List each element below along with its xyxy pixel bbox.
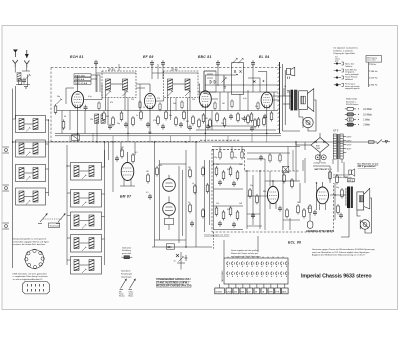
svg-text:30p: 30p: [57, 96, 60, 98]
tube label EF89: [143, 55, 154, 59]
svg-text:95 Hz: 95 Hz: [371, 64, 377, 66]
Fi1 primary coil: [106, 79, 112, 96]
netzteil label: [315, 169, 330, 171]
left margin terminal 2: [3, 185, 10, 191]
note diese angaben: [231, 249, 260, 258]
antenna arrow: [25, 50, 29, 58]
note tonabnehmer bold: [156, 278, 192, 287]
svg-text:240V~: 240V~: [347, 137, 353, 139]
svg-text:Geänderte: Geänderte: [121, 270, 131, 273]
decoder RC row1: [214, 164, 244, 189]
wire EM87 drop: [113, 142, 135, 192]
svg-text:220: 220: [131, 99, 134, 101]
svg-text:eingetragen: eingetragen: [121, 275, 132, 278]
svg-text:25µ: 25µ: [250, 185, 253, 187]
legend row 2: [334, 68, 378, 75]
crystal box: [283, 166, 289, 172]
EL84 cathode cluster: [247, 114, 266, 132]
switch table ticks: [228, 257, 283, 259]
terminal box mid: [167, 244, 175, 249]
svg-text:ECL 86: ECL 86: [288, 241, 301, 245]
ps wires extra: [305, 158, 348, 183]
svg-text:Mono: Mono: [129, 296, 134, 298]
padder trimmer: [57, 99, 63, 104]
antenna coupling parts: [16, 79, 30, 88]
svg-text:3n9: 3n9: [227, 169, 230, 171]
resistor legend row1: [345, 107, 372, 111]
IF strip small resistors: [98, 99, 259, 111]
resistor legend row4: [345, 123, 370, 127]
switch table contacts row2: [227, 272, 288, 277]
demod triode EBC81: [199, 91, 211, 108]
tweeter coupling marks: [284, 86, 290, 96]
svg-text:100: 100: [192, 99, 195, 101]
IF transformer can Fi2 dashed box: [164, 68, 199, 97]
antenna AM: [13, 50, 18, 58]
svg-text:nachgestimmte Gerät übertragen: nachgestimmte Gerät übertragen: [231, 255, 260, 258]
svg-text:60: 60: [64, 116, 66, 118]
svg-text:nach unten: nach unten: [367, 59, 376, 62]
output transformer T2: [345, 187, 353, 209]
ratio det diode marks: [210, 80, 216, 84]
ECL86 label: [288, 241, 301, 245]
note text UKW: [13, 272, 49, 281]
Fi1 secondary coil: [111, 79, 128, 96]
svg-text:HF 2: HF 2: [348, 180, 354, 182]
electrolytic pair: [314, 155, 327, 165]
phono jack BU1: [303, 117, 313, 127]
wire filter stack left rail: [13, 119, 49, 196]
svg-text:LW: LW: [248, 291, 251, 293]
value labels scatter row2: [106, 115, 265, 125]
svg-text:470k: 470k: [158, 165, 162, 167]
svg-text:5k: 5k: [270, 94, 272, 96]
svg-text:SPR: SPR: [268, 291, 273, 293]
tuning gang capacitor: [232, 58, 244, 95]
stereo pentode ECL86b: [317, 182, 329, 210]
loudspeaker LS1: [299, 89, 314, 112]
svg-text:50µ: 50µ: [117, 123, 120, 125]
svg-text:1k: 1k: [143, 107, 145, 109]
svg-text:315 Hz: 315 Hz: [371, 77, 378, 79]
wire ps to bus: [296, 142, 338, 166]
ratio detector components: [202, 111, 273, 129]
mains transformer NT: [333, 134, 343, 159]
svg-text:abfallend: abfallend: [345, 79, 353, 81]
svg-text:macht gedämpft: macht gedämpft: [345, 73, 359, 76]
loudspeaker LS2: [357, 188, 370, 210]
oscillator label boxes: [74, 74, 100, 92]
svg-text:0,5: 0,5: [135, 152, 138, 154]
middle resistors: [147, 166, 197, 227]
hanging parts upper decoder: [219, 147, 243, 160]
phono jack BU2: [360, 220, 370, 230]
svg-text:0,1: 0,1: [146, 192, 149, 194]
svg-text:350-W-Serien: 350-W-Serien: [346, 104, 358, 106]
note gedruckte: [122, 246, 132, 255]
svg-text:3k3: 3k3: [186, 121, 189, 123]
switch table contacts row1: [227, 262, 288, 267]
svg-text:Netzspannungsteile nur unter g: Netzspannungsteile nur unter gezeich.: [13, 238, 48, 241]
svg-text:MW: MW: [241, 291, 245, 293]
output transformer T1: [290, 90, 298, 111]
oscillator resistor R4: [62, 120, 65, 131]
svg-text:1k8: 1k8: [239, 203, 242, 205]
svg-text:-neten/oben angegeb. Werten un: -neten/oben angegeb. Werten und Typen: [13, 240, 49, 243]
tube label ECH81: [70, 55, 84, 59]
left margin terminal 1: [3, 147, 10, 153]
svg-text:Gedruckte: Gedruckte: [122, 246, 132, 249]
tastenaggregat label: [204, 233, 230, 236]
svg-text:1 Watt: 1 Watt: [363, 119, 370, 122]
wire middle loop: [155, 142, 187, 247]
pickup switch Sa: [119, 278, 127, 297]
oscillator resistor R3: [54, 104, 57, 115]
anschluss note: [333, 174, 352, 180]
small speaker HT2: [349, 169, 355, 177]
band filter unit BF4: [16, 188, 46, 205]
label EC86 small: [214, 157, 237, 159]
svg-text:1/3 Watt: 1/3 Watt: [363, 114, 372, 117]
legend row 4: [334, 83, 378, 90]
decoder extra wires: [247, 147, 300, 231]
svg-text:-en wie im folgenden Abschnitt: -en wie im folgenden Abschnitt 19: [13, 278, 44, 281]
dashed chassis line mid: [51, 140, 240, 141]
wire verticals EBC81 EL84: [205, 90, 274, 134]
svg-text:0,5µ: 0,5µ: [243, 98, 247, 100]
volume pot P1: [222, 76, 228, 85]
svg-text:0,1: 0,1: [285, 171, 288, 173]
svg-text:Die abgeänd. Lautsprecher-: Die abgeänd. Lautsprecher-: [333, 47, 358, 50]
wire bus 30V: [55, 132, 281, 136]
resistor sample: [122, 256, 133, 259]
band filter unit BF9: [71, 257, 102, 275]
b+ feed horizontals: [212, 147, 300, 163]
svg-text:TONABNEHMER ANSCHLUSS /: TONABNEHMER ANSCHLUSS /: [156, 278, 191, 281]
svg-text:NT 5: NT 5: [333, 130, 339, 133]
svg-text:-ersetzen, die Geräte-Sich. be: -ersetzen, die Geräte-Sich. beachten: [13, 243, 46, 246]
value labels scatter top: [57, 94, 272, 121]
magic eye EM87 envelope: [121, 152, 134, 186]
decoder value labels: [216, 164, 339, 211]
EM87 label: [120, 195, 132, 199]
wire verticals ECH81: [62, 108, 97, 142]
svg-text:beziehen a.: beziehen a.: [346, 101, 357, 103]
svg-text:ZF 86: ZF 86: [170, 68, 178, 71]
left margin terminal 3: [3, 223, 10, 229]
svg-text:UKW: UKW: [227, 291, 232, 293]
left feed components: [202, 160, 210, 232]
decoder RC row2: [214, 206, 244, 230]
resistor legend row2: [345, 113, 372, 117]
output pentode EL84: [261, 92, 272, 109]
dashed box tuner top edge: [51, 67, 281, 69]
svg-text:50µ: 50µ: [234, 157, 237, 159]
band filter unit BF2: [16, 140, 46, 157]
resistor legend heading: [346, 98, 358, 107]
EL84 top cap wires: [205, 72, 266, 93]
wire column B rail: [67, 145, 105, 265]
netztrafo note bold: [357, 162, 379, 168]
legend heading box: [366, 56, 382, 63]
band filter unit BF1: [16, 116, 46, 133]
svg-text:Diese angaben mit den großen: Diese angaben mit den großen: [231, 249, 258, 252]
svg-text:Tieftöner: Tieftöner: [345, 65, 353, 68]
triode-heptode ECH81: [72, 91, 84, 108]
bridge rectifier GL1: [311, 133, 329, 155]
svg-text:Widerstände: Widerstände: [346, 98, 358, 101]
svg-text:GRUNDPLATTE FM/ST: GRUNDPLATTE FM/ST: [306, 230, 333, 233]
svg-text:WECHSLER-CHASSIS (Pos.124): WECHSLER-CHASSIS (Pos.124): [156, 284, 192, 287]
svg-text:Der Netztrafo ist auf: Der Netztrafo ist auf: [358, 162, 379, 165]
dipole fork A: [13, 60, 18, 67]
svg-text:1n: 1n: [136, 115, 138, 117]
legend sub text: [335, 56, 340, 63]
switch link dashed: [43, 219, 62, 228]
svg-text:KW: KW: [234, 291, 237, 293]
cathode box: [165, 218, 174, 230]
pickup pot: [177, 252, 185, 270]
svg-text:für Zweitlautsprecher: für Zweitlautsprecher: [333, 176, 352, 179]
svg-text:5n: 5n: [241, 118, 243, 120]
svg-text:Angaben über Meßwerte bei Voll: Angaben über Meßwerte bei Vollaussteueru…: [312, 254, 365, 257]
svg-text:Werten der Tasten auf das jew.: Werten der Tasten auf das jew.: [231, 252, 259, 255]
middle value labels: [121, 147, 194, 204]
wire vertical pair before transformer: [283, 64, 301, 131]
wire bus bottom mid: [152, 142, 212, 247]
svg-text:110V~: 110V~: [347, 149, 353, 151]
tube socket view: [25, 249, 45, 269]
wire grid row detector: [198, 80, 280, 92]
band filter unit BF3: [16, 165, 46, 182]
dashed box tuner left edge: [50, 68, 52, 142]
tweeter HT1: [286, 67, 295, 79]
ECC83a triode circle: [163, 175, 176, 192]
svg-text:680: 680: [263, 191, 266, 193]
svg-text:Tastensatz: Tastensatz: [50, 224, 60, 227]
wire ls2 to jack: [341, 198, 372, 237]
band filter unit BF6: [71, 190, 102, 208]
pickup switch Sb: [129, 278, 136, 297]
bus tick leads: [70, 134, 267, 143]
svg-text:ZF 85: ZF 85: [107, 68, 115, 71]
svg-text:125V~: 125V~: [347, 145, 353, 147]
NT label: [333, 130, 339, 133]
key button row: [215, 288, 288, 294]
svg-text:ECH 81: ECH 81: [70, 55, 84, 59]
heater run: [333, 159, 342, 164]
svg-text:7k: 7k: [330, 169, 332, 171]
svg-text:EM 87: EM 87: [120, 195, 132, 199]
svg-text:STE: STE: [275, 291, 280, 293]
svg-text:98,45 A-A: 98,45 A-A: [75, 78, 85, 81]
note gemessen: [312, 248, 375, 257]
svg-text:Gemessen gegen Chassis mit Röh: Gemessen gegen Chassis mit Röhrenvoltmet…: [312, 248, 375, 251]
connector strip view: [23, 282, 50, 294]
wire grid line g1: [55, 110, 278, 112]
svg-text:NETZTEIL NT 5: NETZTEIL NT 5: [315, 169, 330, 171]
svg-text:12A: 12A: [167, 246, 172, 249]
legend bracket: [369, 63, 371, 88]
wavechange switch S2: [56, 213, 66, 224]
bypass caps row1: [108, 122, 192, 131]
svg-text:EF 89: EF 89: [143, 55, 154, 59]
svg-text:3k: 3k: [188, 202, 190, 204]
wire EL84 to transformer: [273, 96, 291, 104]
tube label EBC81: [198, 55, 212, 59]
band filter unit BF7: [71, 212, 102, 230]
key row connectors: [220, 284, 285, 288]
amp resistor cluster: [278, 170, 343, 219]
wire amp section: [265, 142, 346, 230]
svg-text:0,1µ: 0,1µ: [88, 96, 92, 98]
svg-text:87,15-94A: 87,15-94A: [75, 74, 85, 77]
svg-text:Kombinat. in nebenstr.: Kombinat. in nebenstr.: [333, 49, 353, 52]
IF transformer can Fi1 dashed box: [102, 68, 136, 97]
EM87 anode resistor: [115, 148, 134, 164]
elco capsule: [307, 214, 313, 228]
negative feedback run: [196, 126, 276, 130]
svg-text:460 Hz: 460 Hz: [371, 85, 378, 87]
grundplatte label: [306, 230, 333, 233]
resistor legend row3: [345, 118, 370, 122]
wire EF89 connections: [108, 84, 188, 134]
svg-text:10,97-52 A-A: 10,97-52 A-A: [75, 82, 88, 85]
small caps top row: [94, 60, 255, 67]
svg-text:Tastenaggregat von unten: Tastenaggregat von unten: [204, 233, 230, 236]
svg-text:2x50µF 350V: 2x50µF 350V: [314, 163, 327, 165]
dashed link decoder to table: [214, 232, 259, 258]
chassis hatched bar: [278, 62, 280, 133]
Fi2 secondary coil: [173, 79, 191, 96]
svg-text:47k: 47k: [110, 102, 113, 104]
ECC83b triode circle: [163, 196, 176, 218]
mains wire and fuse: [352, 140, 390, 144]
wavechange switch S1: [38, 213, 48, 224]
band filter unit BF5: [71, 163, 102, 181]
EBC81 grid cluster: [198, 118, 210, 130]
svg-text:gestrichelt: gestrichelt: [122, 252, 132, 255]
title: [301, 273, 372, 279]
svg-text:5k6: 5k6: [173, 103, 176, 105]
svg-text:25µ: 25µ: [221, 123, 224, 125]
grid cap C8: [84, 105, 88, 111]
input trimmer C1: [22, 74, 31, 86]
switch table frame: [221, 258, 288, 284]
svg-text:Stereo: Stereo: [119, 295, 125, 298]
svg-text:50µ: 50µ: [336, 187, 339, 189]
svg-text:angepaßt geprüft: angepaßt geprüft: [345, 87, 360, 90]
wire antenna down-lead: [13, 86, 16, 268]
legend header text: [333, 47, 358, 56]
svg-text:10n: 10n: [169, 115, 172, 117]
IF strip top links: [96, 64, 216, 111]
svg-text:1µ: 1µ: [192, 183, 194, 185]
AFC box: [72, 135, 80, 141]
svg-text:12k: 12k: [216, 164, 219, 166]
svg-text:TASTENSATZ: TASTENSATZ: [221, 270, 224, 282]
transformer taps: [343, 137, 353, 153]
svg-text:27k: 27k: [157, 98, 160, 100]
Fi2 primary coil: [168, 79, 174, 96]
svg-text:1/2 Watt: 1/2 Watt: [363, 108, 372, 111]
svg-text:ST-ANT. IN STEREO-LAUFW. /: ST-ANT. IN STEREO-LAUFW. /: [156, 281, 189, 284]
wire speaker to jack: [299, 100, 316, 131]
diode marks bottom mid: [174, 254, 188, 263]
note gestrichelt: [121, 270, 132, 279]
svg-text:Prägung der Typschilder: Prägung der Typschilder: [333, 53, 355, 55]
svg-text:220 V geschaltet !: 220 V geschaltet !: [357, 165, 377, 168]
svg-text:AUS: AUS: [282, 290, 287, 293]
svg-text:grün: grün: [335, 61, 339, 63]
FM input coil: [15, 67, 30, 81]
svg-text:3n9: 3n9: [227, 209, 230, 211]
svg-text:u. eingebauten Teilen kompl. a: u. eingebauten Teilen kompl. austausch.: [13, 275, 49, 278]
EBC81 grid box: [204, 71, 216, 92]
IF pentode EF89: [144, 93, 155, 109]
wire main bus: [13, 141, 352, 143]
svg-text:470k: 470k: [153, 120, 157, 122]
wire IF strip verticals: [96, 64, 253, 111]
wire stage links: [84, 75, 280, 101]
svg-text:470: 470: [255, 106, 258, 108]
svg-text:EL 84: EL 84: [259, 55, 270, 59]
svg-text:NORM: NORM: [216, 291, 222, 293]
svg-text:2 Watt: 2 Watt: [363, 124, 370, 127]
svg-text:220V~: 220V~: [347, 141, 353, 143]
svg-text:UKW Zwischens. mit sämt. gedru: UKW Zwischens. mit sämt. gedruckten: [13, 272, 47, 275]
svg-text:1k8: 1k8: [239, 164, 242, 166]
svg-text:8k2: 8k2: [106, 116, 109, 118]
wire decoder verticals: [214, 149, 261, 230]
legend row 1: [334, 62, 376, 68]
svg-text:mit Anschlußschnur: mit Anschlußschnur: [333, 174, 351, 177]
tube label EL84: [259, 55, 270, 59]
osc coil pair L2: [95, 114, 106, 123]
svg-text:12k: 12k: [216, 203, 219, 205]
svg-text:Schaltung: Schaltung: [122, 249, 131, 252]
stereo triode ECL86a: [267, 181, 278, 209]
dashed decoder outline: [212, 149, 333, 232]
decoder caps left: [249, 188, 259, 219]
svg-text:180 Hz: 180 Hz: [371, 71, 378, 73]
svg-text:Schaltungen: Schaltungen: [121, 273, 132, 276]
note text mains: [13, 238, 49, 247]
wire ECH81 anode: [66, 75, 78, 104]
band filter unit BF8: [71, 235, 102, 253]
svg-text:werte von Netzteil bis zu 10%: werte von Netzteil bis zu 10% Toleranz m…: [312, 251, 370, 254]
HF2 label box: [348, 179, 355, 183]
svg-text:25µ: 25µ: [214, 157, 217, 159]
svg-text:EBC 81: EBC 81: [198, 55, 212, 59]
dipole fork B: [24, 61, 29, 68]
legend row 3: [334, 76, 378, 81]
decoupling resistors row1: [103, 110, 195, 127]
svg-text:470k: 470k: [307, 208, 311, 210]
wire below-bus verticals: [105, 142, 136, 167]
svg-text:Imperial Chassis 9633 stereo: Imperial Chassis 9633 stereo: [301, 273, 372, 279]
svg-text:22k: 22k: [90, 119, 93, 121]
